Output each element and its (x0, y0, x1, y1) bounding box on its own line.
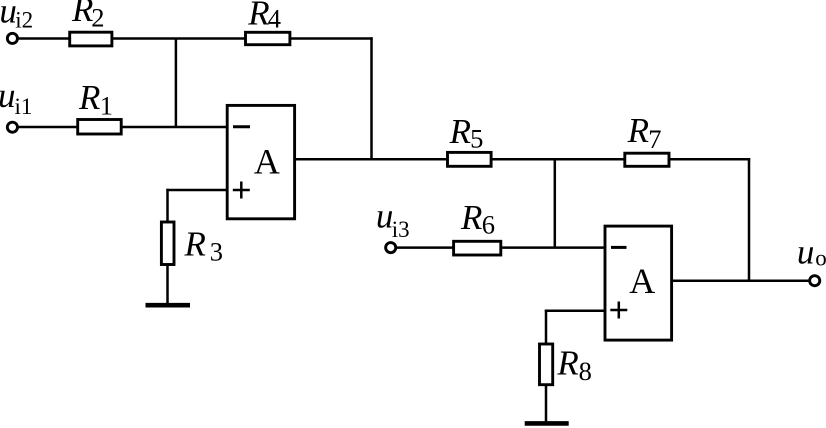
wire feedback vertical down to U2 output node (748, 158, 751, 281)
wire R4 to feedback corner (290, 37, 373, 40)
wire U1 plus input to R3 (166, 189, 227, 192)
junction wire from node N1 down to inverting input wire (175, 39, 178, 128)
svg-text:4: 4 (268, 3, 281, 33)
wire R7 to feedback corner (668, 158, 751, 161)
wire vertical down to R3 (166, 189, 169, 222)
junction wire from node N2 down to U2 inverting input wire (554, 159, 557, 247)
wire U1 output to R5 (295, 158, 447, 161)
svg-text:i1: i1 (15, 94, 33, 119)
terminal u_o (810, 276, 820, 286)
wire R2 to R4 (113, 37, 247, 40)
terminal u_i2 (7, 33, 17, 43)
op-amp U1 plus pin mark (233, 189, 250, 192)
wire u_i3 terminal to R6 (396, 246, 455, 249)
svg-text:A: A (629, 261, 655, 301)
resistor R7 (625, 153, 669, 166)
op-amp U2 box (605, 226, 672, 340)
svg-text:1: 1 (100, 91, 113, 121)
resistor R3 (161, 222, 174, 265)
wire R6 to U2 inverting input (501, 246, 605, 249)
svg-text:8: 8 (579, 356, 592, 386)
svg-text:R: R (184, 225, 206, 264)
svg-text:u: u (0, 76, 16, 115)
svg-text:R: R (627, 111, 649, 150)
wire feedback vertical down to op-amp U1 output node (370, 37, 373, 159)
resistor R4 (246, 32, 290, 44)
svg-text:R: R (78, 78, 100, 117)
svg-text:u: u (797, 233, 815, 272)
svg-text:6: 6 (482, 209, 495, 239)
svg-text:A: A (254, 141, 280, 181)
wire R8 to ground (545, 384, 548, 423)
terminal u_i3 (386, 243, 396, 253)
svg-text:5: 5 (470, 123, 483, 153)
resistor R2 (70, 32, 112, 46)
svg-text:i2: i2 (15, 7, 33, 32)
terminal u_i1 (7, 122, 17, 132)
resistor R6 (454, 241, 501, 255)
op-amp U2 plus pin mark (610, 309, 627, 312)
svg-text:7: 7 (648, 124, 661, 154)
resistor R8 (540, 344, 553, 385)
op-amp U2 minus pin mark (611, 246, 627, 249)
svg-text:i3: i3 (392, 217, 410, 242)
wire U2 plus input to R8 (545, 310, 605, 313)
svg-text:2: 2 (91, 3, 104, 33)
ground (R3) (146, 303, 191, 308)
svg-text:o: o (815, 245, 826, 270)
resistor R5 (448, 152, 492, 166)
svg-text:R: R (71, 0, 93, 29)
op-amp U1 minus pin mark (233, 125, 250, 128)
svg-text:R: R (449, 112, 471, 151)
svg-text:3: 3 (210, 237, 223, 267)
wire vertical down to R8 (545, 310, 548, 345)
svg-text:R: R (247, 0, 269, 32)
op-amp U1 box (227, 105, 294, 218)
svg-text:R: R (460, 198, 482, 237)
wire R1 to U1 inverting input (121, 126, 227, 129)
wire R5 to R7 (491, 158, 626, 161)
wire U2 output to terminal u_o (671, 280, 810, 283)
resistor R1 (78, 120, 122, 135)
wire R3 to ground (166, 265, 169, 305)
ground (R8) (525, 421, 569, 426)
wire u_i2 terminal to R2 (17, 37, 70, 40)
wire u_i1 terminal to R1 (17, 126, 78, 129)
svg-text:R: R (556, 343, 578, 382)
